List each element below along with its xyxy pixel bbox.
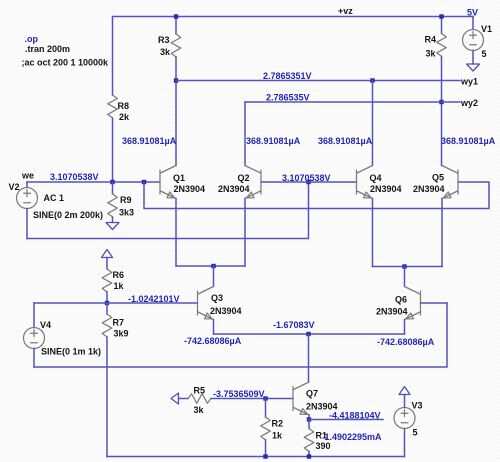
svg-text:R2: R2 [272,419,284,429]
svg-text:R6: R6 [113,270,125,280]
svg-text:AC 1: AC 1 [44,193,65,203]
wire Q6 emitter drop [404,320,406,335]
svg-text:we: we [21,171,34,181]
svg-text:wy2: wy2 [460,98,478,108]
svg-text:.tran 200m: .tran 200m [25,44,70,54]
node -1.0242101V readout [128,294,180,304]
svg-text:368.91081µA: 368.91081µA [441,136,496,146]
svg-text:;ac oct 200 1 10000k: ;ac oct 200 1 10000k [22,58,110,68]
resistor R3 [158,17,181,58]
svg-text:2N3904: 2N3904 [210,306,242,316]
node 3.1070538V readout mid [282,173,331,183]
transistor Q7 [293,382,338,415]
resistor R8 [108,95,130,122]
svg-text:2.786535V: 2.786535V [266,93,310,103]
voltage source V2 [9,182,104,239]
node 2.7865351V readout [263,71,312,81]
resistor R6 [102,269,124,292]
svg-text:V4: V4 [40,320,51,330]
wire Q1-Q2 emitter rail [176,265,245,267]
svg-text:-1.67083V: -1.67083V [273,320,315,330]
junction wy1 tap [174,78,178,82]
node -1.67083V readout [273,320,315,330]
svg-text:-4.4188104V: -4.4188104V [329,411,381,421]
wire wy2 [245,101,460,103]
junction emitter rail to Q7 [306,332,310,336]
svg-text:Q2: Q2 [238,173,250,183]
svg-text:2.7865351V: 2.7865351V [263,71,312,81]
svg-text:368.91081µA: 368.91081µA [246,136,301,146]
svg-text:368.91081µA: 368.91081µA [122,136,177,146]
svg-text:3.1070538V: 3.1070538V [282,173,331,183]
node wy2 label [460,98,478,108]
svg-text:-1.0242101V: -1.0242101V [128,294,180,304]
svg-text:390: 390 [316,441,331,451]
junction R8/R9/we [110,180,114,184]
svg-text:wy1: wy1 [460,77,478,87]
svg-text:1k: 1k [114,281,125,291]
transistor Q1 [160,166,205,199]
wire bottom rail [107,456,405,458]
svg-text:V3: V3 [412,401,423,411]
node +vz label [338,6,353,16]
resistor R9 [108,182,134,223]
wire to Q6 collector [404,267,406,287]
svg-text:R8: R8 [118,101,130,111]
wire Q2 emitter drop [244,199,246,267]
node current readout -742.68086uA right [377,337,435,347]
svg-text:R4: R4 [425,35,437,45]
junction R1 bottom [307,454,311,458]
wire Q6 base link [421,302,448,304]
transistor Q5 [413,166,458,199]
wire Q7 collector riser [308,334,310,382]
svg-text:2N3904: 2N3904 [376,307,408,317]
node we label [21,171,34,181]
ground below V1 [467,64,480,71]
wire V4 minus to Q6 base [34,303,447,367]
svg-text:R9: R9 [120,195,132,205]
wire R3 to Q1 collector [175,57,177,166]
svg-text:Q1: Q1 [173,173,185,183]
resistor R1 [304,420,330,457]
node current readout 368.91081uA no1 [122,136,177,146]
node current readout 368.91081uA no4 [441,136,496,146]
directive ac comment [22,58,110,68]
junction emitter rail left [211,264,215,268]
wire V2 minus rail [27,182,309,239]
junction R5/R2/Q7 base [263,396,267,400]
resistor R4 [425,17,447,59]
svg-text:2N3904: 2N3904 [413,184,445,194]
svg-text:3k: 3k [426,49,437,59]
svg-text:SINE(0 2m 200k): SINE(0 2m 200k) [33,210,103,220]
node 2.786535V readout [266,93,310,103]
svg-text:2N3904: 2N3904 [218,184,250,194]
svg-text:+vz: +vz [338,6,353,16]
svg-text:5: 5 [413,428,418,438]
wire R8 bottom to we [112,118,114,182]
directive .op [25,34,39,44]
transistor Q3 [198,287,242,320]
junction we tap [142,180,146,184]
wire +vz top rail [113,16,474,18]
directive .tran 200m [25,44,70,54]
svg-text:2N3904: 2N3904 [370,184,402,194]
resistor R2 [261,399,283,457]
svg-text:R3: R3 [158,35,170,45]
node current readout 368.91081uA no3 [318,136,373,146]
svg-text:2N3904: 2N3904 [174,184,206,194]
svg-text:Q7: Q7 [306,389,318,399]
wire R4 to Q5 collector [441,56,443,165]
svg-text:R5: R5 [194,386,206,396]
junction wy2/R4 [439,100,443,104]
wire Q3-Q6 emitter rail [214,333,405,335]
svg-text:SINE(0 1m 1k): SINE(0 1m 1k) [41,347,101,357]
svg-text:3k3: 3k3 [119,208,134,218]
svg-text:.op: .op [25,34,39,44]
wire Q3 emitter drop [213,320,215,335]
svg-text:3.1070538V: 3.1070538V [50,172,99,182]
transistor Q2 [218,166,261,199]
svg-text:R7: R7 [113,318,125,328]
svg-text:-742.68086µA: -742.68086µA [184,336,242,346]
svg-text:3k9: 3k9 [114,329,129,339]
svg-text:Q6: Q6 [395,295,407,305]
junction R3 top [174,14,178,18]
junction Q7 emitter/R1 [307,417,311,421]
svg-text:5: 5 [482,49,487,59]
wire R7 bottom to bottom rail [106,337,108,457]
wire we to Q5 base rail [144,182,489,209]
junction emitter rail right [402,264,406,268]
svg-text:Q4: Q4 [370,173,382,183]
node current readout -742.68086uA left [184,336,242,346]
wire Q7 emitter [308,415,310,420]
wire we from V2 to Q1 base [27,181,160,183]
voltage source V3 [394,395,423,457]
power flag above R6 [102,250,113,270]
svg-text:V1: V1 [481,24,492,34]
resistor R7 [102,303,128,339]
node 5V readout [467,8,478,18]
junction Q2/Q4 base node [306,180,310,184]
svg-text:Q3: Q3 [211,293,223,303]
voltage source V1 [463,17,493,65]
node current readout 368.91081uA no2 [246,136,301,146]
wire V4 plus to Q3 base [34,302,198,304]
svg-text:-3.7536509V: -3.7536509V [213,389,265,399]
wire Q1 emitter drop [175,199,177,267]
resistor R5 [188,386,211,416]
wire R8 branch from rail [112,17,114,96]
svg-text:-742.68086µA: -742.68086µA [377,337,435,347]
net flag left of R5 [171,393,188,404]
wire Q2-Q4 base link [261,181,357,183]
node -4.4188104V readout [329,411,381,421]
node current readout 1.4902295mA [325,432,383,442]
wire Q4 collector drop [372,81,374,166]
wire Q4 emitter drop [372,199,374,267]
node 3.1070538V readout left [50,172,99,182]
svg-text:3k: 3k [160,47,171,57]
transistor Q6 [376,287,421,320]
node -3.7536509V readout [213,389,265,399]
svg-text:2k: 2k [119,112,130,122]
svg-text:1k: 1k [272,431,283,441]
junction R6/R7/V4 [105,301,109,305]
wire R5 to Q7 base [211,398,293,400]
wire Q7 emitter stub right [309,419,383,421]
wire Q2 collector drop [244,102,246,166]
node wy1 label [460,77,478,87]
svg-text:Q5: Q5 [432,173,444,183]
ground below R9 [106,223,119,230]
svg-text:368.91081µA: 368.91081µA [318,136,373,146]
voltage source V4 [24,303,102,367]
power flag above V3 [399,387,410,395]
svg-text:3k: 3k [194,405,205,415]
wire Q5 emitter drop [441,199,443,267]
junction wy1/Q4 [370,78,374,82]
junction R2 bottom [263,454,267,458]
wire R6 bottom [106,292,108,303]
transistor Q4 [357,166,402,199]
wire to Q3 collector [213,266,215,287]
junction R4 top [439,14,443,18]
wire wy1 [176,80,460,82]
svg-text:1.4902295mA: 1.4902295mA [325,432,383,442]
svg-text:V2: V2 [9,182,20,192]
wire Q4-Q5 emitter rail [373,266,443,268]
